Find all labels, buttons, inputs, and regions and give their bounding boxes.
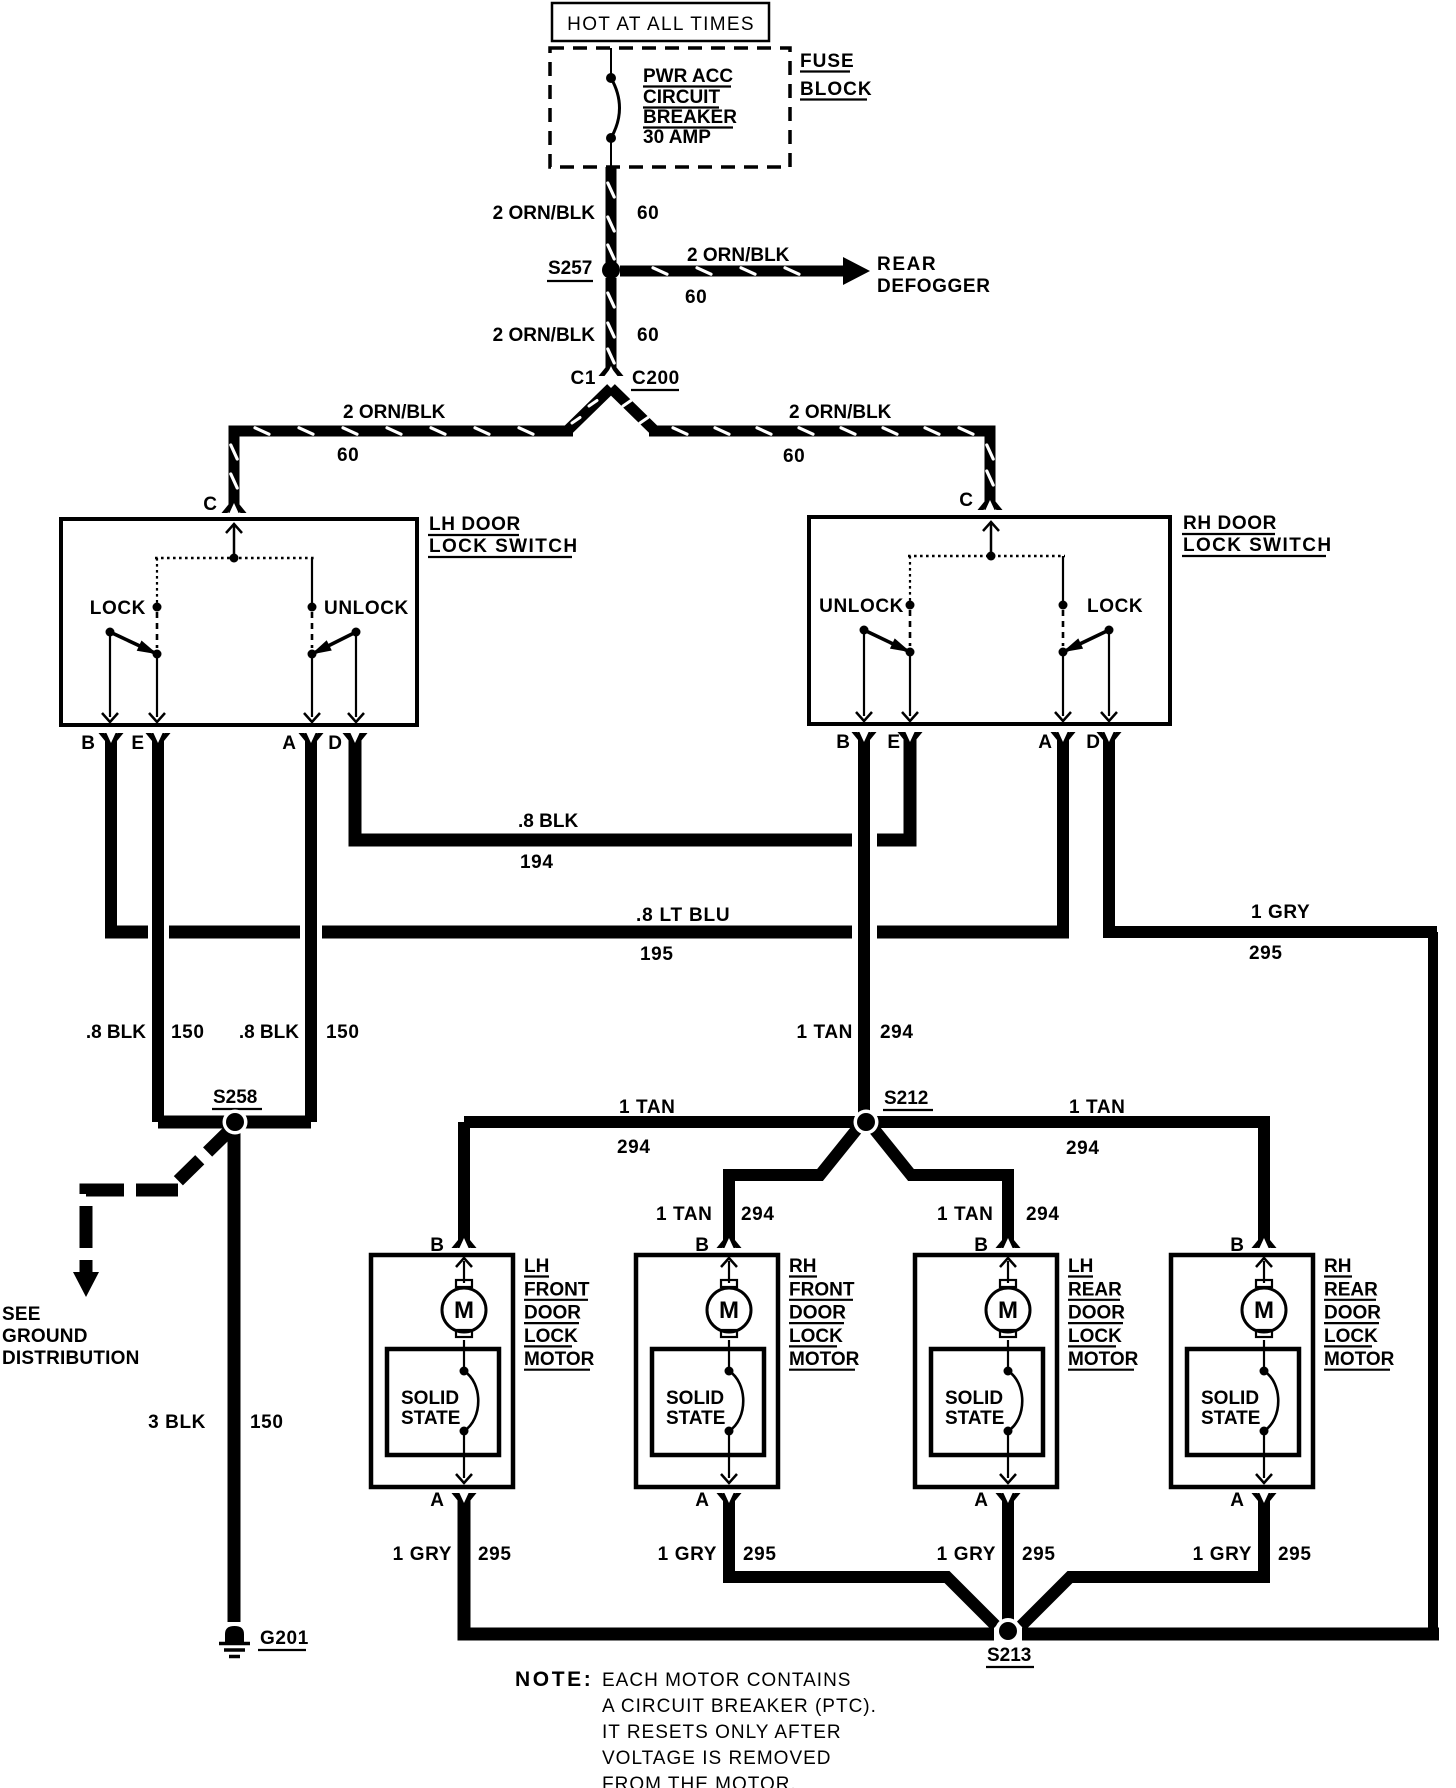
svg-text:UNLOCK: UNLOCK [819, 596, 904, 617]
svg-text:B: B [974, 1235, 988, 1256]
svg-text:MOTOR: MOTOR [1068, 1349, 1139, 1370]
svg-text:1 GRY: 1 GRY [1193, 1544, 1252, 1565]
svg-text:SEE: SEE [2, 1304, 41, 1325]
svg-text:2 ORN/BLK: 2 ORN/BLK [493, 203, 596, 224]
svg-text:1 GRY: 1 GRY [1251, 902, 1310, 923]
svg-text:.8 BLK: .8 BLK [518, 811, 578, 832]
svg-text:295: 295 [1022, 1544, 1056, 1565]
svg-text:2 ORN/BLK: 2 ORN/BLK [687, 245, 790, 266]
svg-text:SOLID: SOLID [1201, 1388, 1259, 1409]
svg-text:LH: LH [1068, 1256, 1093, 1277]
svg-text:294: 294 [1026, 1204, 1060, 1225]
svg-text:1 TAN: 1 TAN [1069, 1097, 1125, 1118]
svg-text:NOTE:: NOTE: [515, 1668, 593, 1691]
svg-text:LOCK: LOCK [524, 1326, 578, 1347]
svg-text:DOOR: DOOR [1068, 1303, 1125, 1324]
svg-text:294: 294 [617, 1137, 651, 1158]
svg-text:FUSE: FUSE [800, 51, 855, 72]
svg-text:295: 295 [478, 1544, 512, 1565]
svg-text:A: A [430, 1490, 444, 1511]
svg-text:G201: G201 [260, 1628, 309, 1649]
svg-text:FROM THE MOTOR.: FROM THE MOTOR. [602, 1774, 797, 1788]
svg-text:DOOR: DOOR [524, 1303, 581, 1324]
svg-text:60: 60 [783, 446, 805, 467]
svg-text:2 ORN/BLK: 2 ORN/BLK [343, 402, 446, 423]
svg-text:LOCK: LOCK [1068, 1326, 1122, 1347]
svg-text:LOCK: LOCK [1324, 1326, 1378, 1347]
svg-text:A: A [1230, 1490, 1244, 1511]
svg-text:2 ORN/BLK: 2 ORN/BLK [789, 402, 892, 423]
svg-text:A: A [1038, 732, 1052, 753]
svg-text:REAR: REAR [1068, 1279, 1122, 1300]
svg-text:LOCK: LOCK [789, 1326, 843, 1347]
svg-text:E: E [887, 732, 900, 753]
svg-text:HOT AT ALL TIMES: HOT AT ALL TIMES [567, 14, 755, 35]
svg-text:DEFOGGER: DEFOGGER [877, 276, 991, 297]
svg-text:RH DOOR: RH DOOR [1183, 513, 1277, 534]
svg-text:1 TAN: 1 TAN [797, 1022, 853, 1043]
svg-text:.8 LT BLU: .8 LT BLU [636, 905, 730, 926]
svg-text:LOCK: LOCK [1087, 596, 1143, 617]
svg-text:MOTOR: MOTOR [789, 1349, 860, 1370]
svg-text:BLOCK: BLOCK [800, 79, 873, 100]
svg-text:E: E [131, 733, 144, 754]
svg-text:60: 60 [637, 325, 659, 346]
svg-text:VOLTAGE IS REMOVED: VOLTAGE IS REMOVED [602, 1748, 832, 1769]
svg-text:B: B [1230, 1235, 1244, 1256]
svg-text:1 TAN: 1 TAN [656, 1204, 712, 1225]
svg-text:295: 295 [1249, 943, 1283, 964]
svg-text:UNLOCK: UNLOCK [324, 598, 409, 619]
svg-text:1 TAN: 1 TAN [619, 1097, 675, 1118]
svg-text:D: D [328, 733, 342, 754]
svg-text:M: M [998, 1297, 1018, 1324]
svg-text:CIRCUIT: CIRCUIT [643, 87, 720, 108]
svg-text:60: 60 [637, 203, 659, 224]
svg-text:.8 BLK: .8 BLK [239, 1022, 299, 1043]
svg-text:B: B [81, 733, 95, 754]
svg-text:A: A [282, 733, 296, 754]
svg-text:2 ORN/BLK: 2 ORN/BLK [493, 325, 596, 346]
svg-text:1 GRY: 1 GRY [393, 1544, 452, 1565]
svg-text:DOOR: DOOR [789, 1303, 846, 1324]
svg-text:D: D [1086, 732, 1100, 753]
svg-text:294: 294 [880, 1022, 914, 1043]
svg-text:B: B [695, 1235, 709, 1256]
svg-text:M: M [454, 1297, 474, 1324]
svg-text:REAR: REAR [1324, 1279, 1378, 1300]
svg-text:BREAKER: BREAKER [643, 107, 737, 128]
svg-text:STATE: STATE [401, 1408, 460, 1429]
svg-text:STATE: STATE [666, 1408, 725, 1429]
svg-text:A: A [974, 1490, 988, 1511]
svg-text:A: A [695, 1490, 709, 1511]
svg-text:150: 150 [326, 1022, 360, 1043]
svg-text:LOCK SWITCH: LOCK SWITCH [429, 536, 578, 557]
svg-text:EACH MOTOR CONTAINS: EACH MOTOR CONTAINS [602, 1670, 851, 1691]
svg-text:294: 294 [741, 1204, 775, 1225]
svg-text:SOLID: SOLID [401, 1388, 459, 1409]
svg-text:B: B [430, 1235, 444, 1256]
svg-text:C1: C1 [571, 368, 597, 389]
svg-text:SOLID: SOLID [666, 1388, 724, 1409]
svg-text:IT RESETS ONLY AFTER: IT RESETS ONLY AFTER [602, 1722, 842, 1743]
svg-text:.8 BLK: .8 BLK [86, 1022, 146, 1043]
svg-text:S258: S258 [213, 1087, 257, 1108]
svg-text:RH: RH [1324, 1256, 1351, 1277]
svg-text:C: C [203, 494, 217, 515]
svg-text:LH DOOR: LH DOOR [429, 514, 521, 535]
svg-text:1 GRY: 1 GRY [658, 1544, 717, 1565]
svg-text:C: C [959, 490, 973, 511]
svg-text:S212: S212 [884, 1088, 928, 1109]
svg-text:REAR: REAR [877, 254, 937, 275]
svg-text:SOLID: SOLID [945, 1388, 1003, 1409]
svg-text:60: 60 [337, 445, 359, 466]
svg-text:FRONT: FRONT [789, 1279, 855, 1300]
svg-text:GROUND: GROUND [2, 1326, 88, 1347]
svg-text:STATE: STATE [1201, 1408, 1260, 1429]
svg-text:150: 150 [250, 1412, 284, 1433]
svg-text:C200: C200 [632, 368, 680, 389]
svg-text:194: 194 [520, 852, 554, 873]
svg-text:S213: S213 [987, 1645, 1031, 1666]
svg-text:M: M [1254, 1297, 1274, 1324]
svg-text:MOTOR: MOTOR [524, 1349, 595, 1370]
svg-text:150: 150 [171, 1022, 205, 1043]
svg-text:RH: RH [789, 1256, 816, 1277]
svg-text:1 GRY: 1 GRY [937, 1544, 996, 1565]
svg-text:LOCK: LOCK [90, 598, 146, 619]
svg-text:30 AMP: 30 AMP [643, 127, 711, 148]
svg-text:1 TAN: 1 TAN [937, 1204, 993, 1225]
svg-text:195: 195 [640, 944, 674, 965]
svg-text:DISTRIBUTION: DISTRIBUTION [2, 1348, 140, 1369]
svg-text:M: M [719, 1297, 739, 1324]
svg-text:295: 295 [1278, 1544, 1312, 1565]
svg-text:PWR ACC: PWR ACC [643, 66, 733, 87]
svg-text:60: 60 [685, 287, 707, 308]
svg-text:B: B [836, 732, 850, 753]
svg-text:295: 295 [743, 1544, 777, 1565]
svg-text:MOTOR: MOTOR [1324, 1349, 1395, 1370]
svg-text:LOCK SWITCH: LOCK SWITCH [1183, 535, 1332, 556]
svg-text:STATE: STATE [945, 1408, 1004, 1429]
svg-text:S257: S257 [548, 258, 592, 279]
svg-text:A CIRCUIT BREAKER (PTC).: A CIRCUIT BREAKER (PTC). [602, 1696, 877, 1717]
svg-text:FRONT: FRONT [524, 1279, 590, 1300]
svg-text:LH: LH [524, 1256, 549, 1277]
svg-text:3 BLK: 3 BLK [148, 1412, 206, 1433]
svg-text:DOOR: DOOR [1324, 1303, 1381, 1324]
svg-text:294: 294 [1066, 1138, 1100, 1159]
